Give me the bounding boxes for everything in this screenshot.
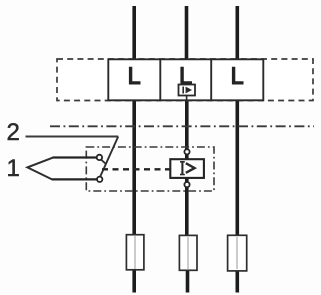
I serif top bbox=[180, 161, 185, 163]
I serif bottom bbox=[180, 174, 185, 176]
fuse F3 bbox=[228, 235, 247, 271]
breaker enclosure dashed box bbox=[57, 59, 313, 101]
wire L2 top bbox=[185, 6, 189, 60]
svg-text:2: 2 bbox=[7, 119, 20, 146]
fuse F2 bbox=[179, 235, 197, 270]
breaker 3-pole solid box bbox=[108, 59, 263, 100]
contact terminal circle top bbox=[97, 155, 102, 160]
trip function chain line bbox=[50, 125, 314, 127]
label L pole 3 bbox=[232, 67, 244, 85]
> glyph bbox=[186, 163, 195, 173]
pole divider 2 bbox=[210, 59, 212, 100]
wire L3 top bbox=[236, 6, 240, 60]
contact terminal line top bbox=[53, 156, 98, 158]
thermal release small box pole 2 bbox=[179, 85, 196, 96]
I glyph bbox=[181, 162, 183, 175]
fuse F1 bbox=[126, 235, 143, 270]
wire L1 middle segment bbox=[132, 100, 136, 236]
small > triangle bbox=[186, 87, 192, 94]
wire L2 segment box to release bbox=[185, 100, 189, 160]
release circle bottom bbox=[184, 182, 189, 187]
auxiliary contact chain box bbox=[86, 147, 214, 191]
wire L2 bottom bbox=[186, 270, 190, 293]
trip linkage dashed line bbox=[102, 168, 170, 170]
label L pole 1 bbox=[129, 67, 141, 85]
wire L3 middle segment bbox=[236, 100, 240, 236]
svg-text:1: 1 bbox=[7, 155, 20, 182]
fuse link wire F3 bbox=[236, 237, 238, 269]
wire L3 bottom bbox=[236, 270, 240, 293]
arrowhead chevron label 1 bbox=[27, 158, 53, 180]
leader line label 2 bbox=[26, 136, 119, 138]
wire L2 segment release to fuse bbox=[185, 178, 189, 236]
contact terminal line bottom bbox=[52, 178, 97, 180]
release circle top bbox=[184, 149, 189, 154]
contact stub from top terminal bbox=[101, 160, 106, 164]
overcurrent release box I> bbox=[170, 159, 204, 178]
wire L1 bottom bbox=[132, 270, 136, 293]
fuse link wire F2 bbox=[187, 237, 189, 269]
contact lever bbox=[100, 137, 118, 178]
connector line pole 2 bbox=[186, 84, 188, 100]
contact terminal circle bottom bbox=[97, 177, 102, 182]
fuse link wire F1 bbox=[134, 236, 136, 269]
label L pole 2 bbox=[180, 67, 192, 85]
small I bar bbox=[182, 87, 184, 94]
wire L1 top bbox=[132, 6, 136, 60]
pole divider 1 bbox=[159, 59, 161, 100]
